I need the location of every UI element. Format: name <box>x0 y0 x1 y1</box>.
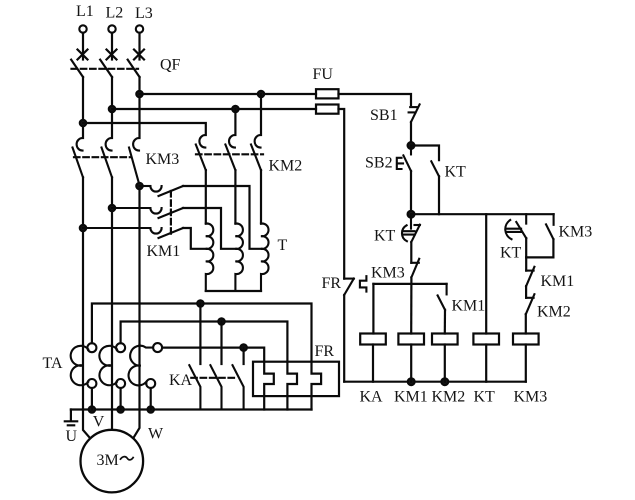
relay contact KM2 NC (right branch) <box>526 294 535 314</box>
svg-text:KM3: KM3 <box>146 151 180 168</box>
coil KM2 <box>432 334 458 345</box>
coil KT <box>473 334 499 345</box>
wire SB2 to rail node <box>410 171 412 214</box>
wire TA3 secondary line (to FR elem1) <box>162 348 264 362</box>
wire KM2 NC to KM3 coil <box>525 314 527 333</box>
node junction SB2/KT branch <box>408 142 415 149</box>
pushbutton SB2 (NO start) <box>397 146 411 172</box>
thermal relay FR heater element 2 <box>287 362 297 410</box>
wire KT1 to KM3 NC <box>410 242 412 263</box>
relay contact KA pole 3 <box>233 365 244 409</box>
wire KA1 drop <box>199 304 201 365</box>
wire KA2 drop <box>220 322 222 365</box>
wire L1 drop to QF <box>82 33 84 60</box>
contactor KM2 pole 1 <box>196 135 206 170</box>
node L3 terminal <box>136 25 143 32</box>
current transformer TA phase3 <box>129 343 163 388</box>
relay contact KT (NO, parallel SB2) <box>431 161 439 176</box>
wire L3 drop to QF <box>138 33 140 60</box>
wire KM3 NO to link <box>552 239 554 257</box>
wire fuse FU1 to control column <box>339 94 412 105</box>
node junction KM2 pole3 tap <box>258 91 264 97</box>
node junction TA1 return <box>89 406 95 412</box>
node junction L3 to FU line <box>136 91 142 97</box>
svg-text:FR: FR <box>315 343 335 360</box>
svg-text:KM1: KM1 <box>452 298 486 315</box>
thermal relay FR heater element 3 <box>312 362 322 410</box>
fuse FU1 <box>316 89 339 98</box>
contactor KM3 pole 3 <box>129 138 140 185</box>
pushbutton SB1 (NC stop) <box>409 104 420 122</box>
breaker QF pole 1 blade <box>71 60 83 77</box>
fuse mark X on L1 <box>78 50 88 60</box>
current transformer TA phase2 <box>99 343 125 388</box>
breaker QF pole 3 blade <box>128 60 140 77</box>
node junction L1 branch <box>80 120 86 126</box>
breaker QF pole 2 blade <box>100 60 112 77</box>
node junction KA1 tap <box>197 300 203 306</box>
wire KM1 row1 to T tap3 <box>183 186 261 249</box>
coil KM3 <box>513 334 539 345</box>
relay contact KA pole 1 <box>189 365 200 409</box>
autotransformer T coil 1 <box>206 224 214 292</box>
contactor KM2 linkage dashed <box>196 153 263 155</box>
fuse mark X on L2 <box>107 50 117 60</box>
relay contact KM3 NC (left column) <box>411 259 419 278</box>
wire KM1 row3 to T tap1 <box>183 228 206 249</box>
autotransformer T coil 2 <box>235 224 243 292</box>
current transformer TA phase1 <box>71 343 97 388</box>
wire TA2 bottom drop <box>119 388 121 410</box>
wire KM2 pole3 drop <box>260 94 262 135</box>
ground symbol <box>65 410 77 426</box>
wire L3 to motor <box>133 345 139 438</box>
svg-text:W: W <box>148 426 164 443</box>
wire L3 QF to KM3 <box>138 77 140 138</box>
wire link to KM1 NC <box>525 257 527 270</box>
wire KA3 drop <box>243 348 245 364</box>
wire rail2 <box>373 283 446 285</box>
autotransformer T coil 3 <box>261 224 269 292</box>
wire L1 branch to KM2 pole1 <box>83 123 206 135</box>
svg-text:KM1: KM1 <box>541 273 575 290</box>
svg-text:KT: KT <box>374 228 396 245</box>
svg-text:SB2: SB2 <box>365 155 393 172</box>
relay KA linkage dashed <box>191 377 237 379</box>
wire coil KT to bus <box>485 345 487 382</box>
node junction KM2 coil return <box>441 378 448 385</box>
relay contact KM1 NO (to KM2 coil) <box>438 284 447 310</box>
wire coil KM2 to bus <box>444 345 446 382</box>
svg-text:KM2: KM2 <box>269 158 303 175</box>
wire TA secondary common bus <box>71 408 312 410</box>
wire KT coil drop <box>485 214 487 333</box>
wire L1 KM3 to TA <box>82 177 84 345</box>
wire KM2 pole1 to T coil1 <box>205 170 207 224</box>
wire L2 KM3 to TA <box>111 177 113 345</box>
wire coil KM1 to bus <box>410 345 412 382</box>
wire KM1 row2 to T tap2 <box>183 208 235 249</box>
svg-text:TA: TA <box>43 355 63 372</box>
svg-text:U: U <box>66 428 78 445</box>
fuse FU2 <box>316 105 339 114</box>
coil KA <box>360 334 386 345</box>
wire left rail to bottom bus <box>343 295 345 382</box>
node junction KM2 pole2 tap <box>232 106 238 112</box>
breaker QF linkage dashed <box>72 68 139 70</box>
svg-text:KM3: KM3 <box>371 265 405 282</box>
contactor KM3 pole 2 <box>102 138 113 177</box>
wire TA3 bottom drop <box>150 388 152 410</box>
svg-text:KA: KA <box>360 389 384 406</box>
contactor KM1 pole 1 <box>140 186 184 196</box>
svg-text:L3: L3 <box>135 5 153 22</box>
contactor KM2 pole 3 <box>251 135 261 170</box>
svg-text:L2: L2 <box>106 5 124 22</box>
svg-text:KT: KT <box>500 245 522 262</box>
wire control bottom bus <box>344 381 526 383</box>
wire second line L2 to fuse FU2 <box>112 108 316 110</box>
node junction KA2 tap <box>218 318 224 324</box>
wire SB1 to node <box>410 122 412 146</box>
svg-text:SB1: SB1 <box>370 107 398 124</box>
timer contact KT1 (delayed, left column) <box>402 214 420 242</box>
relay contact KM1 NC (right branch) <box>526 267 534 286</box>
svg-text:KM2: KM2 <box>432 389 466 406</box>
node L2 terminal <box>108 25 115 32</box>
wire L2 to motor <box>111 345 113 430</box>
thermal contact FR NC (left rail) <box>344 276 366 295</box>
contactor KM2 pole 2 <box>225 135 235 170</box>
thermal relay FR heater box <box>253 362 339 396</box>
wire KM2 pole2 drop <box>234 109 236 135</box>
wire L2 drop to QF <box>111 33 113 60</box>
wire KT branch top <box>411 146 439 161</box>
wire T star point bus <box>206 290 261 292</box>
relay contact KA pole 2 <box>210 365 221 409</box>
node junction KM1 row1 on L3 <box>136 183 142 189</box>
contactor KM1 pole 3 <box>83 228 183 238</box>
thermal relay FR heater element 1 <box>264 362 274 410</box>
node L1 terminal <box>79 25 86 32</box>
wire L3 KM3 to TA <box>138 185 140 345</box>
svg-text:KM1: KM1 <box>394 389 428 406</box>
node junction TA3 return <box>148 406 154 412</box>
wire KA coil drop <box>372 284 374 334</box>
relay contact KM3 NO (right branch) <box>546 214 554 239</box>
wire TA1 secondary line (to FR elem3) <box>92 304 312 362</box>
svg-text:KM3: KM3 <box>559 224 593 241</box>
fuse mark X on L3 <box>134 50 144 60</box>
wire parallel link <box>526 256 553 258</box>
svg-text:KM2: KM2 <box>537 304 571 321</box>
wire KT branch bottom <box>438 176 440 214</box>
wire KM1 NO to KM2 coil <box>444 310 446 334</box>
node junction TA2 return <box>117 406 123 412</box>
wire TA1 bottom drop <box>91 388 93 410</box>
wire fuse FU2 to left control rail <box>339 109 345 279</box>
node junction control rail <box>408 211 415 218</box>
wire TA2 secondary line (to FR elem2) <box>121 322 288 362</box>
svg-text:V: V <box>93 414 105 431</box>
contactor KM3 linkage dashed <box>74 156 131 158</box>
node junction L2 to FU line <box>109 106 115 112</box>
wire KM3 NC to rail2 and KM1 coil <box>410 277 412 333</box>
wire coil KA to bus <box>372 345 374 382</box>
svg-text:L1: L1 <box>76 3 94 20</box>
wire KM2 pole2 to T coil2 <box>234 170 236 224</box>
svg-text:KT: KT <box>445 164 467 181</box>
svg-text:KT: KT <box>474 389 496 406</box>
node junction KM1 row2 on L2 <box>109 205 115 211</box>
svg-text:QF: QF <box>160 57 181 74</box>
wire KM1 NC to KM2 NC <box>525 286 527 298</box>
motor 3M <box>81 430 144 493</box>
wire KT2 to link <box>525 238 527 257</box>
wire top line L3 to fuse FU1 <box>140 93 317 95</box>
svg-text:FU: FU <box>313 66 334 83</box>
contactor KM3 pole 1 <box>73 138 84 177</box>
svg-text:KA: KA <box>169 372 193 389</box>
coil KM1 <box>398 334 424 345</box>
node junction KM1 row3 on L1 <box>80 225 86 231</box>
contactor KM1 pole 2 <box>112 208 183 218</box>
wire L2 QF to KM3 <box>111 77 113 138</box>
node junction KA3 tap <box>240 344 246 350</box>
timer contact KT2 (delayed, right branch) <box>505 214 526 239</box>
svg-text:FR: FR <box>322 275 342 292</box>
wire coil KM3 to bus <box>525 345 527 382</box>
contactor KM1 linkage dashed <box>170 191 172 237</box>
wire L1 to motor <box>83 345 91 439</box>
svg-text:3M: 3M <box>97 452 119 469</box>
svg-text:T: T <box>278 237 288 254</box>
svg-text:KM1: KM1 <box>147 243 181 260</box>
wire KM2 pole3 to T coil3 <box>260 170 262 224</box>
node junction KM1 coil return <box>408 378 415 385</box>
svg-text:KM3: KM3 <box>514 389 548 406</box>
wire control rail <box>411 213 554 215</box>
wire L1 QF to KM3 <box>82 77 84 138</box>
